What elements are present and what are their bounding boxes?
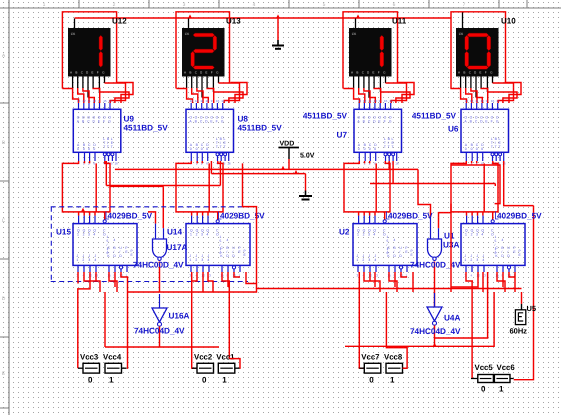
wire U3A input feeds xyxy=(418,169,451,228)
seven-segment display U11 xyxy=(349,19,392,98)
svg-text:2: 2 xyxy=(82,258,84,262)
svg-text:F: F xyxy=(211,71,213,75)
svg-text:C: C xyxy=(2,218,6,224)
svg-text:12: 12 xyxy=(195,99,199,103)
svg-text:T: T xyxy=(220,145,222,149)
svg-text:13: 13 xyxy=(77,99,81,103)
svg-text:10: 10 xyxy=(93,99,97,103)
svg-text:T: T xyxy=(384,145,386,149)
svg-text:0: 0 xyxy=(465,147,467,151)
wire segment U7 to U2 column xyxy=(344,161,393,220)
label U4A xyxy=(444,314,460,323)
svg-text:0: 0 xyxy=(202,375,207,384)
svg-text:4: 4 xyxy=(253,2,256,8)
label U16A xyxy=(169,312,190,321)
svg-text:4029BD_5V: 4029BD_5V xyxy=(220,212,265,221)
svg-text:16: 16 xyxy=(395,162,399,166)
svg-text:1: 1 xyxy=(465,233,467,237)
svg-text:T: T xyxy=(388,145,390,149)
svg-text:0: 0 xyxy=(476,147,478,151)
wire loop around display U11 xyxy=(343,12,398,89)
svg-text:U17A: U17A xyxy=(167,243,188,252)
label 74HC00D_4V right xyxy=(410,261,461,270)
label 60Hz xyxy=(510,327,528,336)
svg-text:4029BD_5V: 4029BD_5V xyxy=(497,212,542,221)
svg-text:11: 11 xyxy=(200,99,203,103)
Vcc5 Vcc6 digital constants xyxy=(471,363,515,394)
wire Vcc7 Vcc8 feeds xyxy=(386,346,407,368)
svg-text:F: F xyxy=(103,120,105,124)
svg-text:F: F xyxy=(485,71,487,75)
svg-text:4511BD_5V: 4511BD_5V xyxy=(412,112,457,121)
svg-text:2: 2 xyxy=(362,258,364,262)
Vcc2 Vcc1 digital constants xyxy=(192,352,240,384)
svg-text:2: 2 xyxy=(113,2,116,8)
svg-text:D: D xyxy=(2,296,6,302)
svg-text:T: T xyxy=(216,145,218,149)
node bus junctions xyxy=(281,166,298,174)
label U14 xyxy=(167,212,265,237)
wire U17A input feeds xyxy=(110,186,163,228)
label 74HC04D_4V right xyxy=(410,327,461,336)
svg-text:74HC00D_4V: 74HC00D_4V xyxy=(133,261,184,270)
svg-text:T: T xyxy=(499,145,501,149)
svg-text:4029BD_5V: 4029BD_5V xyxy=(388,212,433,221)
svg-text:12: 12 xyxy=(363,99,367,103)
svg-text:0: 0 xyxy=(196,147,198,151)
svg-text:3: 3 xyxy=(201,258,203,262)
svg-text:E: E xyxy=(479,71,481,75)
inverter U4A xyxy=(427,293,442,346)
svg-text:VDD: VDD xyxy=(280,141,295,148)
label U17A xyxy=(167,243,188,252)
IC 4029 counter U2 xyxy=(353,216,417,278)
svg-text:0: 0 xyxy=(387,251,389,255)
svg-text:11: 11 xyxy=(475,99,478,103)
svg-text:1: 1 xyxy=(499,385,504,394)
svg-text:3: 3 xyxy=(201,233,203,237)
svg-text:4511BD_5V: 4511BD_5V xyxy=(124,124,169,133)
wire segment weave U11 to U7 xyxy=(343,83,414,104)
svg-text:U13: U13 xyxy=(226,17,241,26)
svg-text:11: 11 xyxy=(368,99,371,103)
label 74HC00D_4V left xyxy=(133,261,184,270)
label U11 xyxy=(392,17,407,26)
NAND gate U3A xyxy=(428,217,442,307)
node junction on dashed box xyxy=(81,208,85,212)
svg-text:74HC04D_4V: 74HC04D_4V xyxy=(410,327,461,336)
svg-text:15: 15 xyxy=(103,99,107,103)
svg-text:Vcc8: Vcc8 xyxy=(384,352,403,361)
svg-text:Vcc6: Vcc6 xyxy=(497,363,516,372)
wire Vcc4 feeds xyxy=(105,346,219,348)
svg-text:B: B xyxy=(356,71,358,75)
svg-text:F: F xyxy=(378,71,380,75)
wire segment U8 to U14 column xyxy=(176,161,223,220)
svg-text:U9: U9 xyxy=(124,115,135,124)
wire segment U9 to U15 column xyxy=(62,161,110,220)
svg-text:60Hz: 60Hz xyxy=(510,327,528,336)
svg-text:1: 1 xyxy=(356,258,358,262)
label U6 xyxy=(412,112,459,134)
svg-text:0: 0 xyxy=(220,251,222,255)
wire segment U2 bottom wires xyxy=(359,272,413,368)
svg-text:5: 5 xyxy=(323,2,326,8)
svg-text:0: 0 xyxy=(471,147,473,151)
svg-text:1: 1 xyxy=(390,375,395,384)
wire segment weave U10 to U6 xyxy=(450,83,521,104)
svg-text:E: E xyxy=(372,71,374,75)
svg-text:4: 4 xyxy=(206,233,208,237)
svg-text:13: 13 xyxy=(358,99,362,103)
svg-text:16: 16 xyxy=(115,162,119,166)
svg-text:G: G xyxy=(221,120,224,124)
svg-text:0: 0 xyxy=(201,147,203,151)
svg-text:0: 0 xyxy=(495,251,497,255)
clock source U5 60Hz xyxy=(515,292,525,325)
svg-text:G: G xyxy=(108,120,111,124)
svg-text:3: 3 xyxy=(476,258,478,262)
svg-text:4: 4 xyxy=(481,233,483,237)
label U9 xyxy=(124,115,169,133)
wire Vcc2 Vcc1 feeds xyxy=(229,359,240,369)
svg-text:0: 0 xyxy=(83,147,85,151)
wire line y183.5 xyxy=(370,184,495,187)
svg-text:T: T xyxy=(495,145,497,149)
svg-text:7: 7 xyxy=(463,2,466,8)
wire bottom bus y292 xyxy=(128,289,522,293)
svg-text:1: 1 xyxy=(190,233,192,237)
label U3A xyxy=(443,232,459,250)
label U15 xyxy=(56,212,153,237)
svg-text:E: E xyxy=(205,71,207,75)
svg-text:Vcc1: Vcc1 xyxy=(216,352,235,361)
svg-text:U8: U8 xyxy=(238,115,249,124)
selection box (dashed) around U15 xyxy=(51,207,249,282)
svg-text:4: 4 xyxy=(207,258,209,262)
svg-text:3: 3 xyxy=(88,258,90,262)
svg-text:74HC04D_4V: 74HC04D_4V xyxy=(134,327,185,336)
svg-text:4: 4 xyxy=(227,238,229,242)
svg-text:0: 0 xyxy=(93,147,95,151)
svg-text:U16A: U16A xyxy=(169,312,190,321)
svg-text:Vcc5: Vcc5 xyxy=(475,363,494,372)
svg-text:F: F xyxy=(491,120,493,124)
svg-text:3: 3 xyxy=(183,2,186,8)
svg-text:U12: U12 xyxy=(112,17,127,26)
svg-text:U11: U11 xyxy=(392,17,407,26)
svg-text:14: 14 xyxy=(221,99,225,103)
svg-text:4: 4 xyxy=(482,258,484,262)
svg-text:2: 2 xyxy=(195,258,197,262)
svg-text:3: 3 xyxy=(368,233,370,237)
svg-text:0: 0 xyxy=(88,147,90,151)
svg-text:15: 15 xyxy=(491,99,495,103)
svg-text:0: 0 xyxy=(374,147,376,151)
svg-text:0: 0 xyxy=(107,251,109,255)
svg-text:0: 0 xyxy=(364,147,366,151)
NAND gate U17A xyxy=(153,224,167,292)
node junction U4A output xyxy=(433,343,437,347)
svg-text:Vcc3: Vcc3 xyxy=(80,352,99,361)
label U2 xyxy=(339,212,433,237)
svg-text:1: 1 xyxy=(76,258,78,262)
svg-text:6: 6 xyxy=(393,2,396,8)
svg-text:13: 13 xyxy=(465,99,469,103)
wire segment U1 bottom wires xyxy=(435,204,515,379)
power VDD 5.0V xyxy=(279,141,315,170)
svg-text:4: 4 xyxy=(114,238,116,242)
svg-text:0: 0 xyxy=(77,147,79,151)
wire GND bus xyxy=(211,173,305,175)
svg-text:B: B xyxy=(75,71,77,75)
label U7 xyxy=(303,112,348,140)
svg-text:B: B xyxy=(189,71,191,75)
wire segment weave U13 to U8 xyxy=(176,83,247,104)
svg-text:T: T xyxy=(107,145,109,149)
svg-text:G: G xyxy=(389,120,392,124)
wire VDD bus xyxy=(115,168,418,170)
svg-text:4: 4 xyxy=(374,258,376,262)
svg-text:15: 15 xyxy=(384,99,388,103)
svg-text:T: T xyxy=(111,145,113,149)
node CK junctions xyxy=(188,14,360,18)
svg-text:U5: U5 xyxy=(527,304,537,313)
Vcc7 Vcc8 digital constants xyxy=(359,352,407,384)
label 74HC04D_4V left xyxy=(134,327,185,336)
svg-text:T: T xyxy=(491,145,493,149)
seven-segment display U12 xyxy=(68,19,111,98)
svg-text:U10: U10 xyxy=(501,17,516,26)
svg-text:2: 2 xyxy=(196,233,198,237)
svg-text:0: 0 xyxy=(481,385,486,394)
svg-text:3: 3 xyxy=(368,258,370,262)
svg-text:T: T xyxy=(224,145,226,149)
svg-text:3: 3 xyxy=(476,233,478,237)
svg-text:1: 1 xyxy=(109,375,114,384)
svg-text:16: 16 xyxy=(227,162,231,166)
seven-segment display U10 xyxy=(456,12,499,97)
svg-text:U2: U2 xyxy=(339,228,350,237)
wire segment U15 bottom wires xyxy=(78,272,128,368)
svg-text:2: 2 xyxy=(470,258,472,262)
svg-text:12: 12 xyxy=(470,99,474,103)
svg-text:F: F xyxy=(97,71,99,75)
wire feed to Vcc6 and U5 right rail xyxy=(514,206,534,380)
svg-text:0: 0 xyxy=(206,147,208,151)
wire U4A output run xyxy=(345,292,494,346)
svg-text:4: 4 xyxy=(373,233,375,237)
wire line y185.5 xyxy=(106,185,220,187)
svg-text:10: 10 xyxy=(373,99,377,103)
svg-text:14: 14 xyxy=(496,99,500,103)
wire CK net top line xyxy=(75,17,452,19)
svg-text:2: 2 xyxy=(471,233,473,237)
svg-text:U1: U1 xyxy=(444,232,455,241)
svg-text:U4A: U4A xyxy=(444,314,460,323)
wire segment U6 to U1 column xyxy=(451,161,534,220)
svg-text:0: 0 xyxy=(369,147,371,151)
svg-text:2: 2 xyxy=(83,233,85,237)
svg-text:Vcc2: Vcc2 xyxy=(194,352,213,361)
svg-text:1: 1 xyxy=(222,375,227,384)
svg-text:1: 1 xyxy=(77,233,79,237)
label U12 xyxy=(112,17,127,26)
label U1 chip xyxy=(496,212,543,221)
svg-text:3: 3 xyxy=(88,233,90,237)
svg-text:4: 4 xyxy=(502,238,504,242)
svg-text:4511BD_5V: 4511BD_5V xyxy=(303,112,348,121)
svg-text:E: E xyxy=(91,71,93,75)
svg-text:1: 1 xyxy=(189,258,191,262)
svg-text:0: 0 xyxy=(88,375,93,384)
svg-text:14: 14 xyxy=(389,99,393,103)
IC 4029 counter U15 xyxy=(73,216,137,278)
IC 4511 BCD to 7-seg driver U9 xyxy=(73,99,121,166)
ground (top, right of U13) xyxy=(272,18,284,49)
svg-text:1: 1 xyxy=(464,258,466,262)
ground (below buses, center) xyxy=(299,174,312,200)
label U8 xyxy=(238,115,283,133)
IC 4511 BCD to 7-seg driver U6 xyxy=(461,99,509,166)
svg-text:F: F xyxy=(384,120,386,124)
svg-text:5.0V: 5.0V xyxy=(300,153,315,160)
svg-text:10: 10 xyxy=(480,99,484,103)
wire segment U14 bottom wires xyxy=(192,163,257,368)
svg-text:14: 14 xyxy=(109,99,113,103)
Vcc3 Vcc4 digital constants xyxy=(78,352,127,384)
svg-text:11: 11 xyxy=(88,99,91,103)
svg-text:15: 15 xyxy=(216,99,220,103)
IC 4511 BCD to 7-seg driver U7 xyxy=(354,99,402,166)
label U13 xyxy=(226,17,241,26)
svg-text:0: 0 xyxy=(369,375,374,384)
svg-text:2: 2 xyxy=(363,233,365,237)
svg-text:4029BD_5V: 4029BD_5V xyxy=(108,212,153,221)
svg-text:13: 13 xyxy=(190,99,194,103)
svg-text:4: 4 xyxy=(93,233,95,237)
svg-text:Vcc4: Vcc4 xyxy=(103,352,122,361)
svg-text:1: 1 xyxy=(43,2,46,8)
IC 4029 counter U14 xyxy=(186,216,250,278)
svg-text:4511BD_5V: 4511BD_5V xyxy=(238,124,283,133)
svg-text:F: F xyxy=(216,120,218,124)
svg-text:0: 0 xyxy=(358,147,360,151)
inverter U16A xyxy=(152,294,167,347)
svg-text:U14: U14 xyxy=(167,228,182,237)
svg-text:U6: U6 xyxy=(448,125,459,134)
wire loop around display U13 xyxy=(176,12,230,89)
svg-text:U7: U7 xyxy=(337,131,348,140)
svg-text:Vcc7: Vcc7 xyxy=(361,352,379,361)
svg-text:T: T xyxy=(392,145,394,149)
wire loop around display U10 xyxy=(451,12,506,89)
svg-text:T: T xyxy=(103,145,105,149)
label U5 xyxy=(527,304,537,313)
svg-text:4: 4 xyxy=(394,238,396,242)
svg-text:10: 10 xyxy=(205,99,209,103)
svg-text:74HC00D_4V: 74HC00D_4V xyxy=(410,261,461,270)
svg-text:0: 0 xyxy=(481,147,483,151)
svg-text:12: 12 xyxy=(82,99,86,103)
IC 4511 BCD to 7-seg driver U8 xyxy=(186,99,234,166)
svg-text:4: 4 xyxy=(94,258,96,262)
svg-text:1: 1 xyxy=(357,233,359,237)
svg-text:B: B xyxy=(463,71,465,75)
label U10 xyxy=(501,17,516,26)
IC 4029 counter U1 xyxy=(461,216,525,278)
svg-text:U15: U15 xyxy=(56,228,71,237)
wire loop around display U12 xyxy=(62,12,116,89)
seven-segment display U13 xyxy=(182,19,225,98)
svg-text:0: 0 xyxy=(190,147,192,151)
wire segment weave U12 to U9 xyxy=(62,83,133,104)
svg-text:G: G xyxy=(496,120,499,124)
